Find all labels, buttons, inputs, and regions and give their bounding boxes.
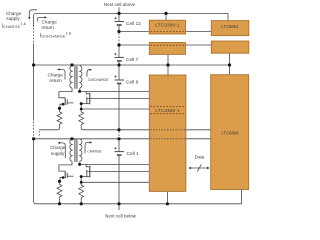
- wire left bus: [33, 16, 35, 27]
- svg-text:LTC3300-1: LTC3300-1: [155, 108, 180, 113]
- svg-text:Cell 12: Cell 12: [126, 21, 141, 27]
- wire rail cell12 bottom: [119, 31, 149, 33]
- svg-text:return: return: [42, 25, 55, 30]
- node stack: next cell below stub: [118, 204, 120, 210]
- arrowhead data right: [207, 167, 210, 169]
- wire R1 return dashed: [38, 131, 40, 137]
- IC LTC6804 lower: [211, 75, 249, 190]
- svg-text:CHARGE: CHARGE: [87, 149, 102, 153]
- wire stack dashed cells 5-2: [118, 131, 120, 138]
- wire top bus: [34, 13, 228, 16]
- resistor R4: [79, 185, 84, 204]
- arrowhead charge supply: [28, 17, 30, 20]
- wire rail1 to LTC6804: [186, 31, 212, 33]
- resistor R1: [39, 108, 62, 130]
- arrow T1 charge return: [59, 69, 65, 79]
- arrow charge return inner: [37, 17, 44, 21]
- wire M3 source to R3: [60, 178, 66, 182]
- transformer T1 core: [75, 66, 77, 89]
- wire secondary node to LTC3300: [80, 90, 150, 92]
- IC LTC3300-1 upper part B: [149, 43, 185, 55]
- IC LTC3300-1 upper part A: [149, 20, 185, 34]
- arrowheads: [28, 16, 210, 169]
- wire stack cell7 bottom: [118, 62, 120, 65]
- wire stack cell12 top: [118, 13, 120, 21]
- svg-text:Next cell above: Next cell above: [104, 2, 136, 7]
- svg-text:Charge: Charge: [50, 145, 66, 150]
- transistor M3: [64, 171, 66, 178]
- wire lower secondary node to LTC3300: [80, 163, 150, 165]
- transformer T2 left winding: [70, 139, 72, 161]
- arrow T2 charge supply: [60, 143, 66, 158]
- wire T1 primary bottom to M1 drain: [59, 88, 72, 98]
- M1 source dot: [62, 103, 65, 106]
- resistor R3: [57, 181, 62, 204]
- arrow charge supply outer: [29, 10, 37, 17]
- arrowhead T2 label: [58, 142, 61, 144]
- wire left bus bottom: [34, 138, 36, 204]
- wire stack cell12 bottom: [118, 26, 120, 32]
- arrowhead T1 label: [57, 68, 60, 70]
- wire bus1 to LTC6804: [186, 129, 211, 131]
- arrowhead charge return: [44, 16, 47, 18]
- wire rail2 to LTC6804: [186, 44, 212, 46]
- wire left bus mid: [33, 44, 35, 121]
- wire mid bus: [34, 64, 230, 66]
- M3 source dot: [62, 176, 65, 179]
- svg-text:Next cell below: Next cell below: [105, 214, 137, 219]
- wire stack cell6 bottom: [118, 84, 120, 130]
- svg-text:return: return: [50, 78, 63, 83]
- wire left bus dashed lower: [33, 122, 35, 138]
- transistor M1: [64, 98, 66, 105]
- battery cell 1: [115, 151, 125, 153]
- transistor M2: [89, 93, 91, 105]
- wire LTC6804 upper to lower: [229, 53, 231, 74]
- data arrow slash: [197, 164, 201, 171]
- wire LTC3300 lower bottom stub: [166, 191, 168, 203]
- wire R2 node to LTC3300: [81, 108, 149, 110]
- wire M4 drain branch: [86, 164, 89, 166]
- node stack: next cell above stub: [118, 7, 120, 13]
- arrow I discharge hook: [87, 70, 90, 77]
- T1 polarity dot: [78, 90, 81, 93]
- wire stack cell1 bottom: [118, 156, 120, 204]
- svg-text:supply: supply: [6, 16, 20, 21]
- wire bus2 cell1 top rail: [34, 138, 150, 140]
- wire M4 source to R4: [81, 177, 90, 185]
- wire stub LTC6804 upper top: [227, 13, 229, 20]
- IC LTC6804 upper part A: [211, 21, 249, 36]
- wire M4 gate to LTC3300: [87, 171, 150, 173]
- wire local bus1: [83, 129, 149, 131]
- wire T2 primary bottom to M3 drain: [59, 161, 72, 171]
- transformer T2 core: [75, 139, 77, 162]
- svg-text:Cell 7: Cell 7: [126, 57, 139, 63]
- arrowhead I discharge: [90, 69, 93, 71]
- wire M1 gate stub: [67, 102, 73, 104]
- transformer T1 left winding: [70, 66, 72, 88]
- wire M2 drain branch: [86, 91, 89, 93]
- wire stack cell6 top: [118, 65, 120, 80]
- svg-text:LTC3300-1: LTC3300-1: [155, 23, 180, 28]
- battery plus signs: [114, 17, 116, 150]
- svg-text:Data: Data: [195, 154, 205, 159]
- battery cell 12: [115, 22, 125, 26]
- wire stack dashed cells 11-8: [118, 33, 120, 44]
- svg-text:supply: supply: [51, 151, 65, 156]
- battery cell 7: [115, 56, 125, 58]
- svg-text:DISCHARGE: DISCHARGE: [88, 78, 109, 82]
- wire stack cell7 top: [118, 45, 120, 57]
- battery cell 6: [115, 79, 125, 81]
- wire left bus dashed upper: [33, 28, 35, 43]
- IC LTC6804 upper part B: [211, 41, 249, 53]
- svg-text:Charge: Charge: [48, 73, 64, 78]
- wire bottom bus: [36, 190, 242, 204]
- T2 polarity dot bottom: [78, 163, 81, 166]
- wire M3 gate stub: [67, 175, 73, 177]
- arrowhead I charge: [90, 141, 93, 143]
- svg-text:Cell 6: Cell 6: [126, 80, 139, 86]
- svg-text:Cell 1: Cell 1: [127, 151, 140, 157]
- wire R4 node to LTC3300: [81, 181, 149, 183]
- arrow I charge hook: [85, 143, 90, 154]
- IC LTC3300-1 lower: [149, 75, 186, 191]
- arrowhead data left: [188, 167, 191, 169]
- wire rail cell7 top: [119, 44, 149, 46]
- wire M2 gate to LTC3300: [87, 98, 150, 100]
- transistor M4: [89, 166, 91, 178]
- transformer T1 right winding: [80, 66, 82, 88]
- wire stack cell1 top: [118, 139, 120, 152]
- resistor R2: [79, 112, 84, 130]
- transformer T2 right winding: [80, 139, 82, 161]
- T2 polarity dot top: [70, 137, 73, 140]
- wire LTC3300 upper to lower: [167, 54, 169, 75]
- wire M2 source to R2: [81, 104, 90, 112]
- svg-text:LTC6804: LTC6804: [221, 24, 239, 29]
- wire T2 secondary bottom node: [79, 161, 81, 164]
- wire M1 source to R1: [60, 104, 66, 108]
- wire stub LTC3300 upper top: [165, 13, 167, 20]
- svg-text:Charge: Charge: [42, 19, 58, 24]
- data arrow: [191, 167, 208, 169]
- wire T1 secondary bottom node: [79, 88, 81, 91]
- svg-text:LTC6804: LTC6804: [221, 131, 239, 136]
- wire bus2 to LTC6804: [186, 138, 211, 140]
